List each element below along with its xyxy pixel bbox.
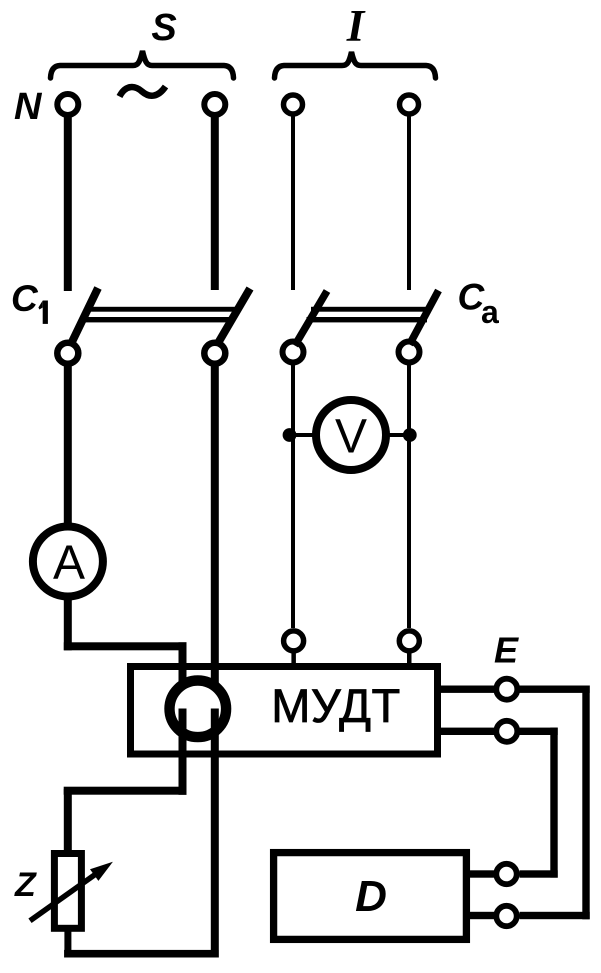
brace S	[51, 51, 234, 78]
wire to D bottom (from outer vertical)	[520, 912, 590, 919]
wire aux L mid	[291, 365, 295, 628]
wire toroid L to Z (down, left, down)	[64, 787, 187, 795]
wire through toroid L lower	[179, 709, 187, 795]
wire E bottom to inner vertical	[520, 728, 558, 735]
svg-text:A: A	[53, 537, 85, 590]
stub MUDT top L	[291, 652, 296, 666]
wire to D top (from inner vertical)	[520, 870, 558, 877]
svg-text:S: S	[151, 7, 176, 49]
junction dot V right	[403, 428, 417, 442]
terminal MUDT top R	[399, 631, 419, 651]
svg-text:Z: Z	[14, 866, 37, 904]
wire V stub left	[291, 433, 317, 437]
wire aux L upper	[291, 115, 295, 290]
resistor Z arrow	[30, 872, 99, 921]
switch C1 pole2 blade	[218, 289, 251, 345]
terminal source L	[57, 94, 78, 115]
svg-text:C: C	[11, 278, 39, 319]
toroid sensor ring	[170, 681, 227, 738]
wire E top stub from box	[441, 686, 494, 693]
terminal aux R	[400, 95, 419, 114]
switch C1 pole2 contact	[204, 343, 225, 364]
terminal source R	[204, 94, 225, 115]
ammeter A1	[33, 527, 103, 597]
wire inner vertical	[550, 728, 557, 878]
wire source L mid (switch to ammeter)	[64, 365, 72, 524]
wire aux R upper	[407, 115, 411, 290]
stub MUDT top R	[407, 652, 412, 666]
svg-text:V: V	[335, 410, 367, 463]
switch linkage left pair (double line)	[86, 307, 237, 312]
terminal E top	[496, 679, 517, 700]
switch C1 pole1 blade	[71, 288, 99, 345]
switch Ca pole2 blade	[410, 291, 439, 345]
wire through toroid R lower (main down wire)	[211, 709, 219, 958]
wire source L upper	[64, 116, 72, 291]
terminal D bottom	[496, 906, 516, 926]
svg-text:E: E	[494, 630, 519, 671]
D box	[274, 853, 467, 940]
resistor Z body	[54, 854, 81, 929]
terminal E bottom	[496, 721, 517, 742]
svg-text:a: a	[481, 294, 499, 330]
terminal aux L	[284, 95, 303, 114]
stub D bottom	[470, 912, 496, 919]
wire source R upper	[211, 116, 219, 290]
svg-text:N: N	[14, 86, 43, 128]
junction dot V left	[283, 428, 297, 442]
wire ammeter to toroid (down, right, down)	[64, 598, 72, 650]
svg-text:D: D	[355, 872, 387, 921]
switch Ca pole1 contact	[283, 342, 304, 363]
wire Z bottom loop	[64, 928, 71, 958]
svg-text:I: I	[346, 1, 366, 51]
switch Ca pole1 blade	[295, 291, 327, 346]
wire source R mid (switch down to toroid)	[211, 365, 219, 700]
stub D top	[470, 870, 496, 877]
wire E bottom stub from box	[441, 728, 494, 735]
ac tilde symbol	[120, 87, 166, 97]
terminal MUDT top L	[284, 631, 304, 651]
switch Ca pole2 contact	[399, 342, 420, 363]
wire aux R mid	[407, 365, 411, 628]
terminal D top	[496, 864, 516, 884]
svg-text:МУДТ: МУДТ	[271, 679, 400, 732]
wire V stub right	[385, 433, 409, 437]
MUDT box	[131, 667, 438, 755]
wire E top to right vertical	[520, 686, 590, 693]
wire right vertical outer	[582, 686, 589, 920]
brace I	[275, 52, 436, 78]
switch linkage right pair (double line)	[311, 307, 431, 312]
switch C1 pole1 contact	[57, 343, 78, 364]
voltmeter V1	[316, 400, 386, 470]
